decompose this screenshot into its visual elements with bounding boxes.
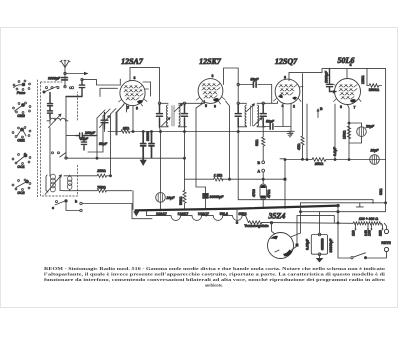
- capacitor C bypass 2: [149, 132, 154, 158]
- ballast tap 140: [364, 225, 369, 237]
- svg-text:150Ω: 150Ω: [343, 130, 347, 139]
- svg-text:0.05µF: 0.05µF: [305, 238, 309, 250]
- IF transformer T1 left tuning capacitor: [157, 105, 163, 128]
- tube V4 50L6: [335, 79, 361, 105]
- ground arrow at bus end: [133, 210, 139, 216]
- wire T1 secondary to V2 grid: [186, 100, 205, 103]
- wire B minus drop: [236, 209, 238, 223]
- capacitor stack C2: [48, 110, 53, 118]
- heater loop 3: [202, 216, 223, 221]
- svg-text:150Ω: 150Ω: [315, 162, 324, 166]
- rotary switch icon OM2: [13, 102, 31, 118]
- svg-text:12SA7: 12SA7: [121, 57, 144, 66]
- rotary switch icon OC1: [12, 153, 31, 169]
- thermistor resistor: [244, 221, 268, 228]
- resistor 150 ohm cathode V4: [343, 126, 351, 139]
- svg-text:12SQ7: 12SQ7: [275, 57, 298, 66]
- potentiometer 500k volume: [179, 128, 186, 210]
- heater loop 4: [223, 216, 242, 221]
- wire V5 cathode to B+ raw: [291, 203, 386, 237]
- IF transformer T1 node top-left: [158, 102, 160, 104]
- rotary switch icon OM1: [12, 127, 31, 143]
- capacitor 3000pF coupling vertical: [325, 69, 336, 92]
- IF transformer T1 trimmer arrow upper: [175, 103, 184, 111]
- tube V2 12SK7: [198, 79, 223, 104]
- svg-text:b: b: [75, 200, 77, 204]
- wire V4 plate stub: [346, 69, 348, 79]
- wire V1 screen stub: [143, 82, 151, 96]
- mains terminal lower: [366, 247, 389, 258]
- svg-text:4700: 4700: [252, 189, 256, 197]
- capacitor stack C1: [48, 93, 53, 111]
- IF transformer T2 trimmer arrow lower: [254, 117, 263, 126]
- wire V4 cathode down: [348, 105, 350, 160]
- svg-text:1500Ω: 1500Ω: [369, 88, 380, 92]
- capacitor 50pF: [251, 78, 260, 88]
- svg-text:0.1µF: 0.1µF: [333, 146, 337, 156]
- wire cathode bias line 159.5: [280, 158, 386, 161]
- jack contact circles: [258, 150, 265, 184]
- junction node: [132, 131, 134, 133]
- ballast tap 160: [367, 225, 372, 237]
- svg-text:5: 5: [136, 107, 138, 111]
- svg-text:c: c: [52, 206, 54, 210]
- svg-text:REOM - Sintomagic Radio mod. 5: REOM - Sintomagic Radio mod. 516 - Gamma…: [44, 266, 385, 271]
- wire V5 plate: [272, 223, 275, 234]
- svg-text:3000µF: 3000µF: [48, 77, 61, 81]
- switch S1b contacts: [52, 152, 68, 159]
- capacitor 30000pF cathode: [203, 194, 224, 210]
- IF transformer T2 primary winding: [238, 103, 246, 127]
- IF transformer T1 node top-right: [183, 102, 185, 104]
- rotary switch icon OC2: [12, 179, 31, 195]
- wire grid feed from switch: [82, 80, 120, 85]
- IF transformer T2 trimmer arrow upper: [247, 103, 256, 111]
- IF transformer T2 node top-left: [237, 102, 239, 104]
- junction square: [284, 178, 287, 181]
- svg-text:82Ω: 82Ω: [379, 188, 383, 195]
- svg-text:110: 110: [351, 230, 355, 236]
- svg-text:30000: 30000: [146, 131, 150, 141]
- svg-text:4: 4: [350, 63, 352, 67]
- svg-text:750Ω: 750Ω: [97, 185, 106, 189]
- electrolytic E2 20uF cathode: [349, 123, 375, 143]
- wire field coil feed: [238, 133, 373, 204]
- svg-text:15Ω: 15Ω: [123, 126, 130, 130]
- tube pin stubs V3: [274, 76, 304, 109]
- svg-text:220: 220: [378, 230, 382, 236]
- ground bus thick: [136, 206, 339, 211]
- speaker field box: [305, 233, 333, 255]
- IF transformer T2 left tuning capacitor: [235, 105, 241, 128]
- resistor 15k cathode: [121, 126, 130, 133]
- tube V3 12SQ7: [275, 79, 300, 104]
- resistor 47k diode load: [297, 74, 304, 159]
- wire output return: [320, 212, 386, 234]
- svg-text:35Z4: 35Z4: [268, 212, 286, 221]
- svg-text:120Ω: 120Ω: [361, 75, 365, 84]
- svg-text:OC2: OC2: [17, 191, 24, 195]
- heater loop 1: [151, 216, 181, 221]
- oscillator coil secondary: [68, 175, 72, 191]
- svg-text:8: 8: [212, 74, 214, 78]
- tube V1 12SA7: [120, 80, 145, 105]
- trimmer capacitor aerial: [100, 113, 111, 129]
- osc coil tuning arrow: [45, 174, 62, 194]
- svg-text:ambiente.: ambiente.: [205, 282, 223, 287]
- svg-text:RETE: RETE: [381, 241, 391, 245]
- heater string drop: [147, 210, 152, 216]
- ground bar at detector line end: [287, 132, 293, 137]
- svg-text:47Ω: 47Ω: [297, 143, 301, 150]
- wire cathode feed second: [100, 88, 118, 96]
- svg-text:20µF: 20µF: [370, 149, 380, 153]
- tube pin stubs V2: [197, 74, 226, 109]
- svg-text:160: 160: [367, 230, 371, 236]
- switch S1a contacts: [43, 86, 72, 93]
- wire V3 cathode to ground: [264, 104, 291, 130]
- IF transformer T2 core: [251, 106, 253, 127]
- wire grid coil drops to tube: [88, 79, 129, 176]
- svg-text:50µF: 50µF: [99, 142, 108, 146]
- svg-text:20µF: 20µF: [166, 196, 176, 200]
- resistor 82k IF secondary return: [255, 128, 265, 150]
- svg-text:50µF: 50µF: [266, 120, 275, 124]
- wire V5 heater pin: [292, 216, 335, 250]
- wire T2 secondary to V3 diode: [264, 102, 277, 104]
- electrolytic E3 20uF on line: [370, 149, 380, 165]
- wire V2 cathode chain: [196, 103, 206, 194]
- resistor 1M: [214, 174, 224, 181]
- resistor 750 ohm osc: [64, 185, 132, 192]
- IF transformer T1 core: [172, 106, 174, 127]
- heater loop 2: [181, 216, 202, 221]
- svg-text:OM1: OM1: [17, 138, 25, 142]
- capacitor 200pF: [76, 131, 96, 138]
- wire AVC tap through C 50pF: [239, 85, 271, 104]
- wire V1 plate to T1: [130, 68, 160, 103]
- svg-text:50µF: 50µF: [251, 78, 260, 82]
- svg-text:130 + 890 Ω: 130 + 890 Ω: [359, 217, 379, 221]
- svg-text:470Ω: 470Ω: [267, 189, 271, 198]
- resistor 1500 ohm: [367, 84, 382, 92]
- aerial coil L1 variable: [47, 114, 68, 128]
- ground under box: [316, 256, 324, 263]
- wire screen feed: [366, 69, 368, 86]
- node V2 plate branch: [237, 83, 239, 85]
- coil unit dashed box: [41, 82, 78, 196]
- ground arrow under bypass caps: [140, 159, 147, 166]
- svg-text:8: 8: [134, 76, 136, 80]
- svg-text:5: 5: [205, 104, 207, 108]
- IF transformer T2 secondary winding: [257, 103, 265, 127]
- band switch ganged dashed link: [37, 80, 39, 198]
- svg-text:l’altoparlante, il quale è inv: l’altoparlante, il quale è invece presen…: [44, 271, 386, 276]
- wire V4 grid return: [334, 104, 336, 160]
- capacitor padder top: [66, 78, 85, 96]
- IF transformer T1 right tuning capacitor: [182, 105, 188, 128]
- mains terminal upper: [384, 223, 388, 233]
- capacitor 50pF osc: [80, 137, 89, 150]
- junction node: [142, 131, 144, 133]
- switch S1c contacts: [52, 200, 152, 219]
- ballast tap 110: [351, 225, 356, 237]
- arrow to converter grid: [64, 72, 89, 75]
- rotary switch icon Fono: [13, 80, 30, 95]
- node antenna: [64, 85, 66, 87]
- wire heater feed to ballast: [262, 222, 354, 225]
- junction node: [151, 131, 153, 133]
- ballast resistor 130+890: [353, 217, 382, 225]
- IF transformer T1 secondary winding: [179, 103, 187, 127]
- resistor 150 ohm bias: [312, 158, 326, 167]
- common tick on bus: [356, 203, 363, 207]
- wire V3 plate to coupling: [289, 69, 386, 81]
- svg-text:250Ω: 250Ω: [96, 169, 106, 173]
- wire diode load line 179: [185, 178, 286, 180]
- wire V3 grid down: [306, 104, 308, 160]
- wire IF bus line 131.5: [108, 127, 290, 132]
- ballast tap 220: [378, 225, 383, 237]
- svg-text:7: 7: [354, 106, 356, 110]
- caption text block: [44, 266, 386, 288]
- tube pin stubs V1: [119, 76, 149, 111]
- svg-text:30000µF: 30000µF: [329, 238, 333, 253]
- B+ rail right: [385, 69, 387, 211]
- wire detector to volume line: [226, 101, 230, 179]
- IF transformer T1 trimmer arrow lower: [162, 117, 171, 126]
- oscillator coil windings: [46, 174, 60, 192]
- svg-text:12SK7: 12SK7: [199, 57, 222, 66]
- wire AVC line 158: [66, 157, 185, 159]
- svg-text:50L6: 50L6: [338, 56, 355, 65]
- svg-text:8: 8: [340, 105, 342, 109]
- svg-text:82Ω: 82Ω: [255, 139, 259, 146]
- svg-text:6: 6: [284, 76, 286, 80]
- svg-text:20µF: 20µF: [365, 125, 375, 129]
- ground V3 cathode: [288, 129, 294, 134]
- svg-text:Termoregolato: Termoregolato: [244, 224, 268, 228]
- svg-text:Fono: Fono: [17, 91, 26, 95]
- wire to thermistor: [242, 216, 248, 223]
- svg-text:OC1: OC1: [17, 165, 24, 169]
- svg-text:200µF: 200µF: [84, 131, 96, 135]
- svg-text:500Ω: 500Ω: [179, 196, 183, 205]
- tube pin stubs V4: [332, 84, 362, 110]
- IF transformer T2 right tuning capacitor: [260, 105, 266, 128]
- svg-text:funzionare da interfono, conse: funzionare da interfono, consentendo con…: [44, 277, 385, 282]
- svg-text:3000µF: 3000µF: [325, 70, 329, 83]
- resistor 250 ohm osc: [64, 169, 111, 177]
- antenna: [60, 60, 70, 87]
- IF transformer T2 node top-right: [262, 102, 264, 104]
- svg-text:50µF: 50µF: [80, 137, 89, 141]
- wire V2 plate to T2: [224, 68, 239, 102]
- wire osc return to bus: [132, 191, 134, 210]
- wire AF takeoff vertical: [284, 159, 286, 209]
- svg-text:2: 2: [293, 105, 295, 109]
- electrolytic E1 20uF: [156, 193, 176, 210]
- capacitor C bypass 1: [141, 132, 146, 160]
- AVC arrow B: [316, 107, 323, 118]
- wire trimmer down: [104, 129, 106, 132]
- capacitor 3000pF antenna: [48, 77, 67, 81]
- svg-text:6: 6: [214, 105, 216, 109]
- paper capacitor 4700pF oval: [252, 184, 271, 208]
- wire decoupling drop to electrolytic: [160, 132, 162, 193]
- wire coil box outputs: [50, 97, 76, 191]
- svg-text:OM2: OM2: [17, 114, 25, 118]
- svg-text:1 MΩ: 1 MΩ: [214, 174, 223, 178]
- tube V5 35Z4 rectifier: [268, 233, 294, 259]
- IF transformer T1 primary winding: [160, 103, 169, 127]
- wire mains vertical: [338, 206, 351, 258]
- mains switch: [351, 253, 367, 259]
- capacitor 50pF cathode: [266, 120, 275, 130]
- wire V1 cathode drops: [127, 105, 134, 132]
- svg-text:30000µF: 30000µF: [210, 195, 225, 199]
